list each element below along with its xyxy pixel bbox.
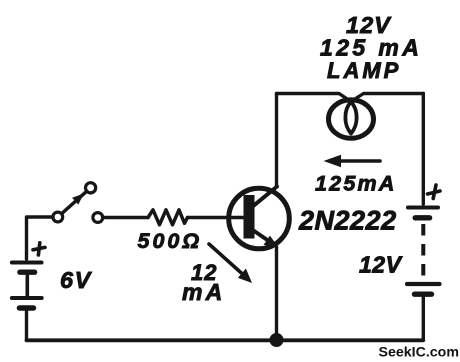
wire: switch to resistor <box>103 216 148 219</box>
svg-text:500Ω: 500Ω <box>138 229 203 253</box>
current arrow 12 mA (pointing down-right at emitter) <box>209 244 252 283</box>
battery B1 6V <box>12 243 45 308</box>
svg-text:SeekIC.com: SeekIC.com <box>379 345 459 361</box>
svg-text:LAMP: LAMP <box>327 58 401 83</box>
wire: battery B1 negative down to bottom rail <box>25 311 28 341</box>
wire: emitter down to bottom rail <box>275 247 278 340</box>
svg-text:mA: mA <box>182 279 225 305</box>
switch S1 (open SPST with throw arrow) <box>53 183 103 223</box>
svg-text:2N2222: 2N2222 <box>298 206 397 236</box>
wire: battery B2 negative down to bottom rail <box>422 297 425 341</box>
lamp 12V 125mA <box>329 100 374 139</box>
current arrow 125mA (pointing left) <box>324 155 381 167</box>
svg-text:6V: 6V <box>60 267 93 293</box>
svg-text:125 mA: 125 mA <box>320 35 422 61</box>
wire: 6V battery positive up and over to switch pole <box>27 217 54 259</box>
resistor R1 500 ohm <box>148 210 188 225</box>
wire: resistor to transistor base <box>188 216 245 219</box>
battery B2 12V (with dashed omitted cells) <box>407 185 440 294</box>
svg-text:125mA: 125mA <box>315 172 397 196</box>
wire: top rail down to 12V battery positive <box>422 94 425 205</box>
junction: emitter / bottom rail <box>270 333 284 347</box>
wire: collector up to top rail <box>275 94 278 187</box>
wire: bottom rail <box>27 338 424 342</box>
wire: top rail with dip at lamp <box>277 94 424 102</box>
svg-text:12V: 12V <box>359 252 403 278</box>
transistor Q1 2N2222 (NPN) <box>229 187 290 249</box>
